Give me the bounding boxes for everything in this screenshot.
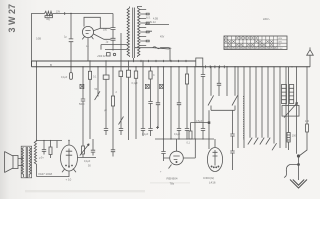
svg-text:C: C (153, 74, 155, 77)
svg-text:3 W 27: 3 W 27 (7, 4, 17, 33)
svg-text:45V: 45V (160, 36, 165, 39)
svg-text:5000: 5000 (79, 103, 85, 106)
svg-text:0,5B: 0,5B (36, 38, 41, 41)
svg-text:100: 100 (292, 135, 297, 138)
svg-text:0,1μF: 0,1μF (61, 76, 68, 79)
svg-text:0,1μF: 0,1μF (142, 133, 149, 136)
svg-text:0,5μF: 0,5μF (196, 120, 203, 123)
svg-text:78ɛ: 78ɛ (170, 181, 175, 185)
svg-text:220V~: 220V~ (263, 18, 271, 21)
svg-text:100: 100 (103, 28, 108, 31)
svg-text:0,1μF: 0,1μF (174, 133, 181, 136)
svg-text:B: B (50, 63, 52, 67)
svg-text:0,1μF: 0,1μF (132, 82, 139, 85)
svg-text:+ 10: + 10 (66, 178, 72, 182)
svg-text:100: 100 (305, 120, 310, 123)
svg-text:45V: 45V (278, 42, 282, 44)
svg-text:V447 100Z: V447 100Z (38, 172, 52, 176)
svg-text:L416: L416 (209, 181, 216, 185)
svg-text:C/DC(G): C/DC(G) (203, 176, 214, 180)
svg-text:4SV: 4SV (278, 38, 283, 40)
svg-text:2,5V: 2,5V (278, 48, 283, 50)
svg-text:REN904: REN904 (167, 176, 178, 180)
svg-text:0,1μF: 0,1μF (84, 160, 91, 163)
svg-text:az 4V dd: az 4V dd (146, 21, 156, 24)
svg-text:+50Z 4Z: +50Z 4Z (97, 56, 106, 58)
svg-text:N.S.: N.S. (146, 17, 151, 20)
svg-text:13V: 13V (56, 11, 61, 14)
svg-text:μ 5+: μ 5+ (39, 156, 44, 159)
